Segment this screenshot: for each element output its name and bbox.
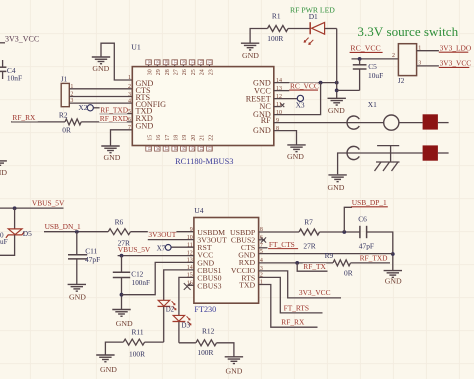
svg-text:uF: uF <box>0 238 8 246</box>
ground (R1 left) <box>241 43 259 60</box>
net label RF_RX <box>12 113 38 122</box>
svg-text:3.3V source switch: 3.3V source switch <box>357 24 458 39</box>
svg-text:18: 18 <box>174 135 180 141</box>
svg-text:3V3_VCC: 3V3_VCC <box>440 59 472 68</box>
ground (U1 pin7) <box>101 146 121 162</box>
resistor R6 <box>108 229 130 235</box>
junction U1 pin14 branch <box>319 81 323 85</box>
wire U4 pin10 3V3OUT stub <box>148 239 194 241</box>
net label VBUS_5V <box>31 199 65 208</box>
svg-text:R2: R2 <box>59 111 68 120</box>
svg-text:RF_TXD: RF_TXD <box>360 254 389 263</box>
wire D3 to R12 <box>178 322 180 343</box>
wire U4 pin15 to D3 <box>179 277 194 315</box>
svg-text:27: 27 <box>174 69 180 75</box>
wire J2 pin1 <box>417 50 439 52</box>
svg-text:X1: X1 <box>368 100 377 109</box>
ground (C6/pin5) <box>384 271 402 286</box>
svg-text:GND: GND <box>287 152 304 161</box>
capacitor C12 <box>113 272 130 277</box>
wire U1 pin14 GND net <box>274 82 337 84</box>
resistor R1 <box>268 26 289 32</box>
svg-text:0R: 0R <box>344 269 353 278</box>
wire to C12 <box>121 256 123 273</box>
LED D2 <box>158 300 176 309</box>
svg-text:R6: R6 <box>115 217 124 226</box>
svg-text:FT_RTS: FT_RTS <box>284 304 309 313</box>
ground (R12) <box>225 357 243 376</box>
wire U4 pin13 GND rail <box>122 262 194 294</box>
svg-text:GND: GND <box>328 183 345 192</box>
svg-text:3V3OUT: 3V3OUT <box>148 230 176 239</box>
svg-text:FT_CTS: FT_CTS <box>269 240 295 249</box>
resistor R2 <box>65 119 81 125</box>
svg-text:CBUS3: CBUS3 <box>197 281 221 290</box>
svg-text:D3: D3 <box>182 322 191 329</box>
svg-text:10nF: 10nF <box>7 74 22 83</box>
svg-text:21: 21 <box>200 135 206 141</box>
svg-text:GND: GND <box>116 319 133 328</box>
svg-text:9: 9 <box>190 227 193 233</box>
svg-text:VBUS_5V: VBUS_5V <box>32 199 65 208</box>
junction C5 bottom net <box>335 89 339 93</box>
junction C12/GND rail <box>120 293 124 297</box>
wire U4 pin11 to X7 <box>171 246 194 248</box>
net label FT_CTS <box>268 240 298 249</box>
wire C5 bottom to GND net <box>337 89 360 91</box>
pad square row1 <box>423 114 438 129</box>
wire U4 pin8 to R7 <box>259 231 299 233</box>
svg-text:22: 22 <box>208 135 214 141</box>
coax pin circle (row1) <box>384 115 399 130</box>
svg-text:100R: 100R <box>197 348 213 357</box>
svg-text:0R: 0R <box>62 126 71 135</box>
svg-text:25: 25 <box>191 69 197 75</box>
wire U1 pin13 stub <box>274 90 290 92</box>
svg-text:X2: X2 <box>78 103 87 112</box>
svg-text:C12: C12 <box>131 271 143 279</box>
net label 3V3OUT <box>148 230 177 239</box>
wire D5 to left edge <box>0 235 15 255</box>
wire R1 to D1 <box>288 28 310 30</box>
svg-text:C5: C5 <box>368 62 377 71</box>
svg-text:5: 5 <box>128 109 131 115</box>
wire D1 to corner <box>325 28 337 30</box>
wire D2 to rail <box>163 306 165 342</box>
junction VCC/C12 <box>120 254 124 258</box>
TVS diode D5 <box>6 229 24 238</box>
wire pad row2 out <box>438 152 449 154</box>
wire J1.2 to U1 RTS <box>69 96 132 98</box>
svg-text:1: 1 <box>128 75 131 81</box>
wire U4 pin16 stub <box>187 284 194 286</box>
net label FT_RTS <box>283 304 312 313</box>
svg-text:R9: R9 <box>325 251 334 260</box>
no-connect U4 pin6 CBUS2 <box>261 237 266 242</box>
wire D1 cathode down to GND <box>336 29 338 99</box>
svg-text:GND: GND <box>69 293 86 302</box>
wire pad row1 out <box>438 122 449 124</box>
wire U1 pin1 to GND <box>101 43 132 80</box>
wire U4 pin14 to D2 <box>164 270 194 300</box>
wire U4 pin5 GND <box>259 253 393 255</box>
svg-text:19: 19 <box>182 135 188 141</box>
svg-text:RF: RF <box>261 116 271 125</box>
ground (U1 pin8) <box>287 145 306 161</box>
wire RF_TX stub <box>297 263 327 271</box>
svg-text:RC1180-MBUS3: RC1180-MBUS3 <box>175 157 233 166</box>
coax contact arc (row1) <box>347 116 359 129</box>
svg-text:C6: C6 <box>358 214 367 223</box>
svg-text:GND: GND <box>225 367 242 376</box>
wire RF_RX left segment <box>11 121 65 123</box>
svg-text:27R: 27R <box>303 242 315 251</box>
svg-text:100R: 100R <box>267 34 283 43</box>
wire U4 pin6 stub <box>259 239 266 241</box>
svg-text:GND: GND <box>0 168 7 177</box>
wire R11 to D2 <box>145 341 164 343</box>
wire J1.3 to U1 CONFIG <box>69 102 132 104</box>
connector J1 <box>61 83 69 106</box>
wire R12 to GND <box>217 343 234 357</box>
svg-text:3V3_LDO: 3V3_LDO <box>440 44 472 53</box>
IC U4 FT230 body <box>194 218 259 304</box>
net label RF_TX <box>303 262 327 271</box>
ground (C12) <box>112 310 133 328</box>
junction VBUS/D5 <box>13 206 17 210</box>
junction USB_DP_1 <box>342 230 346 234</box>
svg-text:USB_DP_1: USB_DP_1 <box>352 198 387 207</box>
svg-text:VBUS_5V: VBUS_5V <box>118 245 151 254</box>
wire J1.1 to U1 CTS <box>69 88 132 90</box>
wire C6 to GND <box>367 232 393 270</box>
pad square row2 <box>423 145 438 160</box>
wire VBUS to D5 <box>14 208 16 229</box>
wire U1 pin9 RF <box>274 122 423 124</box>
svg-text:100nF: 100nF <box>132 279 150 287</box>
svg-text:3V3_VCC: 3V3_VCC <box>299 288 331 297</box>
wire RC_VCC to J2 <box>352 58 399 60</box>
ground (cut at left edge) <box>0 161 7 165</box>
resistor R11 <box>123 339 144 345</box>
svg-text:R1: R1 <box>272 12 281 21</box>
testpoint X7 <box>165 245 171 251</box>
svg-text:R7: R7 <box>304 217 313 226</box>
wire VBUS_5V <box>0 207 64 209</box>
svg-text:15: 15 <box>147 135 153 141</box>
wire U4 pin7 stub <box>259 247 268 249</box>
svg-text:GND: GND <box>242 51 259 60</box>
junction C5 top <box>358 57 362 61</box>
svg-text:47pF: 47pF <box>85 255 100 264</box>
wire R2 to U1 RXD <box>81 121 132 123</box>
testpoint X3 <box>297 95 303 101</box>
no-connect U4 pin16 CBUS3 <box>184 283 191 290</box>
ground (U1 pin1) <box>92 57 110 73</box>
coax contact arc (row2) <box>347 146 359 159</box>
svg-text:23: 23 <box>208 69 214 75</box>
LED D3 <box>173 315 191 324</box>
svg-text:D1: D1 <box>309 12 318 21</box>
testpoint X2 <box>87 105 93 111</box>
resistor R7 <box>299 229 320 235</box>
wire U4 pin4 RXD <box>259 262 333 264</box>
net label RF_TXD <box>100 106 129 115</box>
wire USB_DN_1 <box>44 231 108 233</box>
chassis earth symbol <box>375 146 400 171</box>
junction USB_DN/C11 <box>75 230 79 234</box>
svg-text:16: 16 <box>156 135 162 141</box>
svg-text:RC_VCC: RC_VCC <box>290 81 319 90</box>
svg-text:R11: R11 <box>132 327 144 336</box>
svg-text:4: 4 <box>128 99 131 105</box>
wire C12 to GND <box>121 278 123 310</box>
svg-text:FT230: FT230 <box>194 305 216 314</box>
svg-text:TXD: TXD <box>239 281 255 290</box>
net label USB_DN_1 <box>44 222 81 231</box>
ground (C11) <box>68 284 87 301</box>
svg-text:2: 2 <box>392 53 395 59</box>
svg-text:J1: J1 <box>61 76 68 84</box>
wire D3 rail to R12 <box>179 342 196 344</box>
wire GND to R1 <box>250 29 267 44</box>
wire U4 pin2 RTS <box>259 277 323 313</box>
net label VBUS_5V (U4) <box>117 245 151 254</box>
svg-text:RF_RX: RF_RX <box>12 113 36 122</box>
svg-text:2: 2 <box>128 84 131 90</box>
net label 3V3_VCC (J2) <box>439 59 471 68</box>
svg-text:D5: D5 <box>23 229 32 238</box>
svg-text:3: 3 <box>128 92 131 98</box>
wire U1 pin8 to GND <box>274 131 297 145</box>
svg-text:20: 20 <box>191 135 197 141</box>
net label 3V3_LDO <box>439 44 472 53</box>
svg-text:24: 24 <box>200 69 206 75</box>
wire R6 to U4 pin9 <box>131 231 194 233</box>
power port 3V3_VCC <box>0 35 39 44</box>
junction RF_TX <box>295 261 299 265</box>
wire branch to U1 pin10 <box>274 83 321 115</box>
svg-text:GND: GND <box>92 64 109 73</box>
wire USB_DP_1 riser <box>344 207 352 232</box>
svg-text:6: 6 <box>128 117 131 123</box>
svg-text:28: 28 <box>165 69 171 75</box>
wire U4 pin12 VCC <box>118 255 194 257</box>
resistor R9 <box>333 260 351 266</box>
svg-text:30: 30 <box>147 69 153 75</box>
wire U1 pin11 NC stub <box>274 106 281 108</box>
svg-text:GND: GND <box>104 153 121 162</box>
capacitor C6 <box>360 226 367 238</box>
wire U1 pin12 to X3 <box>274 98 297 100</box>
svg-text:22: 22 <box>208 147 213 151</box>
wire U4 pin1 TXD <box>259 285 318 328</box>
no-connect U1 pin11 <box>281 103 285 107</box>
junction GND pin5 <box>391 252 395 256</box>
wire U1 pin7 to GND <box>111 130 133 146</box>
svg-text:X3: X3 <box>296 100 305 109</box>
wire R7 to C6 <box>320 231 360 233</box>
capacitor C4 <box>0 60 6 79</box>
junction D1 cathode net <box>335 81 339 85</box>
svg-text:USB_DN_1: USB_DN_1 <box>45 222 81 231</box>
ground (RF section) <box>328 98 346 115</box>
U1 top pins 30-23 <box>146 59 215 75</box>
svg-text:GND: GND <box>328 106 345 115</box>
net label RF_RX (U4) <box>281 318 307 327</box>
svg-text:29: 29 <box>156 69 162 75</box>
svg-text:D2: D2 <box>166 307 175 314</box>
wire U4 pin3 VCCIO <box>259 271 341 298</box>
svg-text:GND: GND <box>385 277 402 286</box>
wire J2 pin3 <box>417 65 439 67</box>
net label RF_RXD <box>99 114 129 123</box>
LED D1 <box>304 22 324 44</box>
svg-text:17: 17 <box>165 135 171 141</box>
net label RF_TXD <box>359 254 388 263</box>
svg-text:RF_TX: RF_TX <box>303 262 326 271</box>
svg-text:GND: GND <box>136 122 154 131</box>
svg-text:47pF: 47pF <box>359 242 374 251</box>
svg-text:X7: X7 <box>157 245 166 253</box>
svg-text:100R: 100R <box>129 350 145 359</box>
svg-text:GND: GND <box>253 126 271 135</box>
net label RC_VCC (U1 pin13) <box>289 81 319 90</box>
net label USB_DP_1 <box>351 198 388 207</box>
svg-text:GND: GND <box>100 365 117 374</box>
net label 3V3_VCC (U4) <box>298 288 330 297</box>
wire R9 to RF_TXD <box>351 262 391 264</box>
svg-text:J2: J2 <box>398 77 405 85</box>
capacitor C5 <box>353 59 367 91</box>
net label RC_VCC (C5) <box>350 44 383 53</box>
wire shield to GND <box>338 153 423 174</box>
capacitor C11 <box>68 255 87 259</box>
svg-text:RC_VCC: RC_VCC <box>350 44 380 53</box>
U1 bottom pins 15-22 <box>146 135 215 151</box>
ground (R11) <box>96 355 117 374</box>
svg-text:RF_RX: RF_RX <box>281 318 305 327</box>
svg-text:21: 21 <box>199 147 204 151</box>
svg-text:7: 7 <box>128 125 131 131</box>
svg-text:RF_RXD: RF_RXD <box>100 114 129 123</box>
wire U1 TXD <box>100 113 133 115</box>
svg-text:R12: R12 <box>202 326 215 335</box>
svg-text:3V3_VCC: 3V3_VCC <box>5 35 39 44</box>
resistor R12 <box>196 340 217 346</box>
switch J2 body <box>398 44 416 76</box>
svg-text:C11: C11 <box>85 246 97 255</box>
IC U1 RC1180-MBUS3 body <box>132 67 273 146</box>
svg-text:U4: U4 <box>194 206 203 215</box>
wire C11 to GND <box>76 259 78 284</box>
svg-text:10uF: 10uF <box>368 71 383 80</box>
wire X2 stub <box>93 107 103 109</box>
svg-text:26: 26 <box>182 69 188 75</box>
svg-text:U1: U1 <box>131 43 141 52</box>
wire to C11 <box>76 232 78 255</box>
wire R11 to GND <box>105 342 123 355</box>
ground (antenna shield) <box>328 175 347 192</box>
